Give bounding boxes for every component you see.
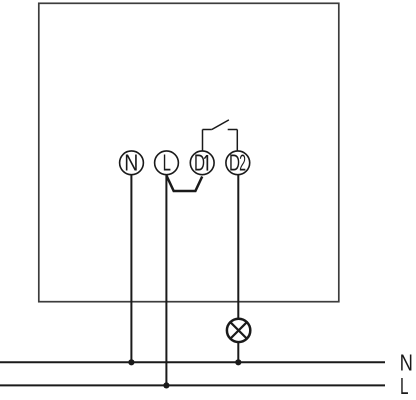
svg-text:2: 2 [239, 150, 246, 176]
terminal D2 [226, 150, 250, 176]
label L (mains) [400, 373, 409, 399]
svg-text:N: N [124, 150, 138, 176]
junction N wire / N line [128, 359, 134, 365]
wire L terminal to L mains [165, 175, 167, 386]
wire N terminal to N mains [130, 175, 132, 362]
svg-text:L: L [400, 373, 409, 399]
junction lamp wire / N line [235, 359, 241, 365]
terminal L [155, 150, 179, 176]
N mains line [0, 361, 385, 363]
junction L wire / L line [163, 382, 169, 388]
svg-text:N: N [400, 349, 413, 375]
jumper L-D1 [167, 176, 203, 191]
wire D2 to switch [236, 130, 238, 151]
wire D2 terminal to lamp [237, 175, 239, 318]
L mains line [0, 384, 385, 386]
svg-text:D: D [194, 150, 205, 176]
label N (mains) [400, 349, 413, 375]
lamp E1 [227, 319, 250, 342]
device outline [39, 3, 339, 301]
switch contact S (open) [203, 120, 238, 130]
terminal D1 [190, 150, 214, 176]
svg-text:L: L [163, 150, 171, 176]
wire D1 to switch [202, 130, 204, 151]
wire lamp to N mains [237, 343, 239, 363]
terminal N [120, 150, 144, 176]
